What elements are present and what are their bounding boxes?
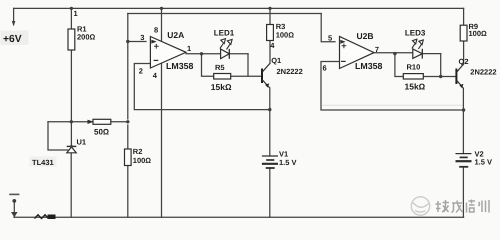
svg-text:3: 3 bbox=[140, 33, 144, 42]
svg-text:2N2222: 2N2222 bbox=[470, 68, 496, 77]
junction U2B pin6 sense tap bbox=[462, 108, 465, 111]
wire bottom ground rail bbox=[14, 216, 464, 218]
scan halo behind +6V bbox=[1, 31, 29, 46]
LED3 bbox=[405, 28, 426, 58]
svg-text:100Ω: 100Ω bbox=[469, 29, 488, 38]
pin 4 label bbox=[153, 71, 158, 80]
node +6V terminal arrow bbox=[3, 21, 22, 45]
svg-text:1.5 V: 1.5 V bbox=[475, 157, 493, 166]
wire R3 branch bbox=[269, 8, 271, 63]
wire V2 minus to ground bbox=[462, 167, 464, 217]
junction pin3 tap bbox=[126, 40, 129, 43]
wire +6V terminal drop bbox=[13, 8, 15, 24]
pin 1 label bbox=[187, 44, 191, 53]
LED1 bbox=[214, 28, 235, 58]
svg-text:100Ω: 100Ω bbox=[133, 156, 152, 165]
wire TL431 anode to ground bbox=[70, 153, 72, 217]
svg-text:7: 7 bbox=[375, 45, 379, 54]
wire LED3 cathode to right node bbox=[422, 53, 440, 55]
wire LED1 cathode to right node bbox=[229, 53, 248, 55]
svg-text:6: 6 bbox=[323, 64, 327, 73]
junction U2B output node bbox=[393, 52, 396, 55]
wire V1 minus to ground bbox=[269, 168, 271, 217]
svg-text:TL431: TL431 bbox=[32, 158, 54, 167]
svg-text:LED1: LED1 bbox=[214, 28, 235, 37]
node 1 label and junction bbox=[70, 7, 78, 18]
shunt regulator U1 TL431 bbox=[32, 138, 86, 167]
wire U2A output pin1 bbox=[186, 53, 221, 55]
op-amp U2A bbox=[150, 30, 193, 71]
resistor R5 15k bbox=[211, 63, 232, 92]
junction reference node bbox=[126, 120, 129, 123]
pin 3 label bbox=[140, 33, 144, 42]
svg-text:LM358: LM358 bbox=[166, 61, 193, 71]
svg-text:1.5 V: 1.5 V bbox=[279, 158, 297, 167]
transistor Q2 2N2222 bbox=[456, 57, 496, 89]
svg-text:1: 1 bbox=[74, 9, 78, 18]
wire top +6V rail bbox=[14, 7, 464, 9]
wire TL431 ref loop bbox=[48, 122, 68, 150]
svg-text:Q2: Q2 bbox=[459, 57, 469, 66]
svg-text:U1: U1 bbox=[77, 138, 87, 147]
wire LED3/R10 right tie bbox=[440, 54, 442, 77]
op-amp U2B bbox=[340, 31, 383, 71]
wire R5 branch bbox=[202, 54, 263, 76]
wire U2B pin5 reference drop bbox=[321, 14, 335, 42]
resistor R3 100ohm bbox=[267, 7, 295, 41]
svg-text:R2: R2 bbox=[133, 147, 143, 156]
junction LED3/R10 tie bbox=[439, 75, 442, 78]
wire U2B output pin7 bbox=[374, 52, 413, 54]
resistor R1 200ohm bbox=[68, 25, 96, 50]
junction U2A pin2 sense tap bbox=[268, 108, 271, 111]
wire Q1 emitter down to V1 bbox=[269, 88, 271, 156]
svg-text:LED3: LED3 bbox=[405, 28, 426, 37]
junction U2A output node bbox=[200, 52, 203, 55]
GND scribble on rail bbox=[35, 215, 56, 220]
wire R9 branch bbox=[463, 8, 465, 64]
wire reference rail (second line) bbox=[128, 13, 321, 15]
pin 6 label bbox=[323, 64, 327, 73]
pin 2 label bbox=[139, 66, 143, 75]
svg-text:U2A: U2A bbox=[167, 30, 184, 40]
svg-text:2: 2 bbox=[139, 66, 143, 75]
pin 5 label bbox=[328, 33, 332, 42]
svg-text:LM358: LM358 bbox=[355, 61, 382, 71]
svg-text:R10: R10 bbox=[407, 63, 421, 72]
scan ghost line above pin6 loop bbox=[322, 104, 462, 106]
wire U2A pin2 sense loop bbox=[134, 64, 269, 110]
junction TL431 cathode node bbox=[70, 120, 73, 123]
watermark logo circle bbox=[411, 197, 429, 215]
resistor R9 100ohm bbox=[460, 22, 487, 41]
wire 50 ohm row bbox=[48, 121, 128, 123]
wire U2A pin8 supply bbox=[161, 8, 163, 41]
wire U2A pin3 branch bbox=[128, 41, 146, 43]
battery V1 1.5V bbox=[262, 150, 297, 169]
svg-text:1: 1 bbox=[187, 44, 191, 53]
wire reference vertical with R2 to ground bbox=[127, 14, 129, 218]
wire LED1/R5 right tie bbox=[247, 54, 249, 76]
node 4 label bbox=[270, 41, 275, 50]
scan halo behind TL431 bbox=[30, 157, 57, 167]
resistor R2 100ohm bbox=[125, 147, 152, 166]
wire R1 branch vertical bbox=[70, 8, 72, 146]
svg-text:R5: R5 bbox=[215, 63, 225, 72]
watermark text 技成培训 bbox=[436, 200, 490, 213]
resistor 50 ohm (with arrow) bbox=[88, 119, 111, 136]
svg-text:8: 8 bbox=[154, 26, 158, 35]
svg-text:U2B: U2B bbox=[357, 31, 374, 41]
svg-text:50Ω: 50Ω bbox=[94, 128, 109, 137]
svg-text:15kΩ: 15kΩ bbox=[405, 81, 426, 91]
svg-text:2N2222: 2N2222 bbox=[277, 67, 303, 76]
svg-text:Q1: Q1 bbox=[271, 56, 281, 65]
ground terminal bbox=[9, 194, 19, 217]
svg-text:100Ω: 100Ω bbox=[276, 31, 295, 40]
svg-text:200Ω: 200Ω bbox=[77, 33, 96, 42]
wire U2A pin4 to ground bbox=[161, 63, 163, 217]
svg-text:+6V: +6V bbox=[3, 34, 22, 45]
transistor Q1 2N2222 bbox=[262, 56, 303, 88]
svg-text:5: 5 bbox=[328, 33, 332, 42]
resistor R10 15k bbox=[403, 63, 425, 92]
wire Q2 emitter down to V2 bbox=[462, 89, 464, 154]
wire ground terminal bbox=[13, 201, 15, 217]
wire R10 branch bbox=[395, 54, 457, 77]
wire U2B pin6 sense loop bbox=[321, 62, 464, 111]
pin 7 label bbox=[375, 45, 379, 54]
pin 8 label and junction bbox=[154, 7, 163, 35]
battery V2 1.5V bbox=[456, 149, 493, 166]
svg-text:15kΩ: 15kΩ bbox=[211, 82, 232, 92]
